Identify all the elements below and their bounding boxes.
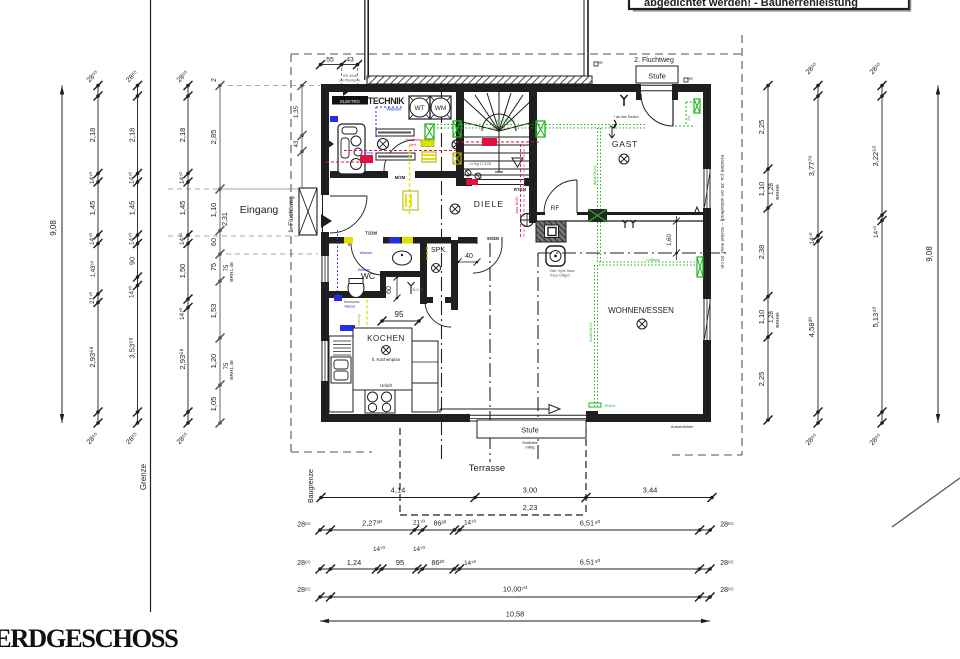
svg-text:86²⁰: 86²⁰ — [434, 520, 447, 528]
svg-text:Abluft DN100: Abluft DN100 — [495, 119, 515, 123]
Stufe box top — [636, 66, 678, 83]
socket at Fluchtweg door — [621, 95, 628, 106]
svg-text:9,08: 9,08 — [925, 246, 934, 262]
svg-text:1,10: 1,10 — [209, 203, 218, 218]
red distribution line — [344, 150, 456, 152]
GAST door leaf — [544, 180, 577, 213]
svg-text:28⁶⁵: 28⁶⁵ — [297, 522, 311, 529]
svg-text:1,53: 1,53 — [209, 304, 218, 319]
svg-text:komp.: komp. — [364, 151, 374, 155]
WC door leaf — [351, 243, 383, 275]
washer WT — [409, 96, 430, 119]
TECHNIK door leaf — [384, 140, 415, 171]
bottom chain 10,58 — [320, 620, 710, 622]
olive drop SPK — [426, 247, 428, 262]
entrance door leaf — [330, 196, 367, 233]
green end mark — [589, 403, 601, 407]
svg-text:3,77⁷⁰: 3,77⁷⁰ — [807, 156, 816, 177]
svg-text:90/2M: 90/2M — [487, 236, 499, 241]
terrace dashed outline — [399, 428, 401, 515]
svg-text:Klst.: Klst. — [599, 419, 606, 423]
bottom chain 4 — [320, 596, 710, 598]
svg-text:2,93⁶⁸: 2,93⁶⁸ — [178, 348, 187, 369]
svg-text:Kiesbett (ca. 30 cm umlaufend): Kiesbett (ca. 30 cm umlaufend) – Sockel … — [719, 155, 725, 269]
svg-text:28⁶⁵: 28⁶⁵ — [720, 522, 734, 529]
left chain 9,08 — [61, 86, 63, 424]
guide dashes from chain 5 — [226, 188, 299, 190]
dim 1,60 chimney — [676, 216, 678, 260]
svg-text:4,14: 4,14 — [391, 486, 406, 495]
svg-text:14⁷⁰: 14⁷⁰ — [89, 172, 96, 184]
bottom chain 2 — [320, 529, 710, 531]
svg-text:1,43⁶⁰: 1,43⁶⁰ — [90, 260, 97, 277]
svg-text:95: 95 — [396, 558, 404, 567]
exterior wall right — [703, 84, 711, 169]
double socket symbol — [622, 220, 636, 228]
svg-text:28⁶⁵: 28⁶⁵ — [720, 560, 734, 567]
svg-text:Hauswass.: Hauswass. — [344, 300, 361, 304]
svg-text:Abw. DN50: Abw. DN50 — [515, 196, 519, 213]
svg-text:BRH95: BRH95 — [775, 312, 781, 328]
section line horizontal — [538, 252, 728, 254]
Baugrenze dashed setback rectangle — [290, 54, 292, 452]
svg-text:WM: WM — [435, 105, 447, 112]
svg-text:1,35: 1,35 — [293, 105, 300, 118]
svg-text:KOCHEN: KOCHEN — [367, 334, 405, 343]
wall stair/GAST — [529, 92, 537, 223]
svg-text:2,38: 2,38 — [757, 245, 766, 260]
svg-text:75: 75 — [209, 263, 218, 271]
blue sill kitchen door — [340, 325, 355, 331]
svg-text:60: 60 — [386, 286, 393, 294]
staircase treads — [463, 136, 534, 138]
svg-text:1,45: 1,45 — [178, 201, 187, 216]
svg-text:WOHNEN/ESSEN: WOHNEN/ESSEN — [608, 306, 674, 315]
olive sleeve stair wall — [453, 153, 461, 164]
window WC left — [321, 256, 323, 282]
property boundary line Grenze — [150, 0, 152, 612]
svg-text:14⁷⁰: 14⁷⁰ — [873, 226, 880, 238]
svg-text:14⁷⁰: 14⁷⁰ — [809, 232, 816, 244]
svg-text:1,28: 1,28 — [769, 183, 775, 195]
heat pump unit — [338, 124, 365, 174]
room label TECHNIK — [332, 96, 368, 105]
svg-text:ELEKTRO: ELEKTRO — [340, 99, 360, 104]
blue water line — [375, 107, 377, 138]
svg-text:43: 43 — [293, 140, 300, 147]
svg-text:6,51⁴⁰: 6,51⁴⁰ — [580, 558, 601, 567]
blue mark kitchen top — [389, 237, 400, 244]
wall WC bottom — [321, 291, 386, 298]
svg-text:Baugrenze: Baugrenze — [308, 469, 315, 503]
green vent sleeve TECHNIK — [425, 124, 434, 139]
svg-text:3,00: 3,00 — [523, 486, 538, 495]
section line vertical A — [441, 85, 443, 462]
svg-text:3,44: 3,44 — [643, 486, 658, 495]
svg-text:BRH1,48: BRH1,48 — [229, 360, 235, 380]
svg-text:2. Fluchtweg: 2. Fluchtweg — [634, 57, 674, 64]
terrace sliding door sill — [470, 414, 586, 416]
carport roof hatched edge — [367, 76, 592, 84]
svg-text:60: 60 — [209, 238, 218, 246]
svg-text:Lüftung: Lüftung — [357, 314, 361, 325]
svg-text:5,13⁴⁰: 5,13⁴⁰ — [871, 306, 880, 327]
green vent sleeve stair right wall — [536, 121, 545, 137]
svg-text:14⁷⁰: 14⁷⁰ — [464, 560, 476, 567]
svg-text:* an der Decke: * an der Decke — [613, 115, 638, 119]
svg-text:21⁷⁰: 21⁷⁰ — [413, 520, 425, 527]
svg-text:B=2,26: B=2,26 — [413, 288, 424, 292]
staircase winders — [463, 98, 499, 131]
svg-text:Vert.: Vert. — [409, 143, 417, 147]
section line vertical B — [489, 243, 491, 462]
svg-text:GAST: GAST — [612, 139, 638, 149]
dim 95 passage — [382, 320, 419, 322]
Stufe box terrace — [477, 420, 586, 438]
wash basin — [393, 251, 412, 265]
guide dashes entrance — [168, 188, 299, 190]
opening 2. Fluchtweg door — [640, 84, 673, 86]
svg-text:1,45: 1,45 — [88, 201, 97, 216]
svg-text:Unluft: Unluft — [380, 383, 393, 388]
svg-text:Köyp Cöllgen: Köyp Cöllgen — [550, 274, 570, 278]
svg-text:Stufe: Stufe — [521, 426, 539, 435]
note box top right — [629, 0, 909, 9]
wall corridor bottom right stub — [458, 237, 477, 244]
small dimension 55/43 over entrance canopy — [321, 64, 358, 66]
svg-text:Wasser: Wasser — [344, 305, 356, 309]
svg-text:21⁷⁰: 21⁷⁰ — [89, 292, 96, 304]
svg-text:DIELE: DIELE — [474, 199, 505, 209]
svg-text:1,10: 1,10 — [757, 182, 766, 197]
window kitchen left — [321, 341, 323, 381]
toilet — [348, 279, 364, 298]
wall post marker left entrance — [321, 214, 332, 228]
svg-text:mittig: mittig — [525, 446, 534, 450]
svg-text:28⁶⁵: 28⁶⁵ — [297, 560, 311, 567]
svg-text:T1/2M: T1/2M — [365, 231, 377, 236]
entrance door opening — [322, 195, 324, 232]
green vent drop WOHNEN — [594, 265, 596, 406]
svg-text:M/2M: M/2M — [395, 175, 406, 180]
WC niche wall — [386, 271, 420, 277]
svg-text:1,20: 1,20 — [209, 354, 218, 369]
window WOHNEN right — [703, 299, 705, 340]
svg-text:1,24: 1,24 — [347, 558, 361, 567]
svg-text:2,25: 2,25 — [757, 372, 766, 387]
svg-text:14⁷⁰: 14⁷⁰ — [89, 233, 96, 245]
svg-text:3,53⁶⁸: 3,53⁶⁸ — [128, 337, 137, 358]
svg-text:1,45: 1,45 — [128, 201, 137, 216]
svg-text:14⁷⁰: 14⁷⁰ — [373, 546, 385, 553]
svg-text:43: 43 — [346, 57, 354, 64]
corner gusset top left — [343, 85, 358, 96]
svg-text:BRH1,48: BRH1,48 — [229, 262, 235, 282]
chimney RF — [536, 221, 566, 242]
svg-text:Terrasse: Terrasse — [469, 463, 505, 474]
label box Kondensator — [376, 153, 415, 160]
blue water WC — [337, 230, 339, 298]
svg-text:55: 55 — [326, 57, 334, 64]
door jamb block — [586, 411, 598, 415]
svg-text:6,51⁴⁰: 6,51⁴⁰ — [580, 519, 601, 528]
svg-text:Lüftung: Lüftung — [646, 257, 659, 262]
svg-text:2,18: 2,18 — [88, 128, 97, 143]
svg-text:RF: RF — [551, 205, 560, 212]
svg-text:Oller Oppe Haus: Oller Oppe Haus — [549, 269, 575, 273]
exterior wall left — [321, 84, 329, 195]
svg-text:Aussenfühler: Aussenfühler — [671, 425, 694, 429]
green vent below wall — [597, 222, 599, 263]
window marker triangle — [694, 207, 700, 214]
green marks top right corner — [694, 99, 700, 113]
wall TECHNIK/stair — [456, 92, 464, 186]
washer WM — [430, 96, 451, 119]
svg-text:14 Stg 17,5/28: 14 Stg 17,5/28 — [469, 162, 491, 166]
svg-text:2,25: 2,25 — [757, 120, 766, 135]
svg-text:Wasser: Wasser — [358, 268, 371, 272]
svg-text:14⁷⁰: 14⁷⁰ — [129, 233, 136, 245]
section line vertical C — [537, 253, 539, 462]
green vent line — [430, 124, 645, 126]
dark sleeve stair wall — [452, 140, 461, 149]
yellow marks passage — [366, 300, 368, 333]
svg-text:40: 40 — [465, 253, 473, 260]
left chain 2 — [97, 86, 99, 424]
right chain A window heights — [767, 86, 769, 421]
svg-text:Wasser: Wasser — [360, 251, 373, 255]
duct sleeve in GAST wall — [588, 209, 607, 222]
right chain C — [881, 86, 883, 424]
svg-text:2,23: 2,23 — [523, 503, 538, 512]
svg-text:1,05: 1,05 — [209, 397, 218, 412]
exterior wall bottom — [321, 414, 470, 422]
svg-text:1,60: 1,60 — [667, 234, 673, 246]
wall corridor bottom / WC top — [321, 237, 349, 244]
wall SPK left — [420, 240, 427, 304]
svg-text:14⁷⁰: 14⁷⁰ — [129, 286, 136, 298]
svg-text:RD 40x8: RD 40x8 — [343, 74, 357, 78]
red box — [360, 155, 373, 163]
svg-text:86²⁰: 86²⁰ — [432, 559, 445, 567]
green vent drop GAST — [597, 128, 599, 209]
SPK door leaf — [425, 301, 451, 327]
svg-text:1,50: 1,50 — [178, 264, 187, 279]
svg-text:2: 2 — [211, 78, 218, 82]
svg-text:14⁷⁰: 14⁷⁰ — [179, 308, 186, 320]
svg-text:3,22⁵⁰: 3,22⁵⁰ — [871, 146, 880, 167]
yellow boxes — [421, 140, 434, 147]
kitchen cabinets right — [412, 341, 438, 383]
svg-text:TECHNIK: TECHNIK — [368, 96, 405, 106]
svg-text:UK Pfosten o.: UK Pfosten o. — [339, 79, 361, 83]
svg-text:10,58: 10,58 — [506, 610, 525, 619]
left chain 3 — [137, 86, 139, 424]
svg-text:1,10: 1,10 — [757, 310, 766, 325]
symbol electrical — [378, 139, 389, 150]
svg-text:Zuluft DN100: Zuluft DN100 — [589, 322, 593, 342]
window GAST right — [703, 169, 705, 208]
staircase walk line — [498, 92, 500, 172]
dim 60 niche — [396, 277, 398, 298]
svg-text:28⁶⁵: 28⁶⁵ — [720, 587, 734, 594]
stove — [365, 390, 395, 413]
wall stair door stubs — [456, 178, 472, 186]
red riser stair — [456, 141, 540, 143]
svg-text:4,58³⁰: 4,58³⁰ — [807, 317, 816, 337]
svg-text:2,18: 2,18 — [178, 128, 187, 143]
terrace door arrow — [440, 408, 549, 410]
carport post line right — [583, 0, 585, 76]
svg-text:SPK.: SPK. — [431, 247, 447, 254]
svg-text:DN100: DN100 — [605, 404, 616, 408]
svg-text:RT/1N: RT/1N — [514, 187, 526, 192]
svg-text:9,08: 9,08 — [49, 220, 58, 236]
svg-text:14⁷⁰: 14⁷⁰ — [179, 233, 186, 245]
exterior wall top — [321, 84, 640, 92]
svg-text:2,18: 2,18 — [128, 128, 137, 143]
kitchen island — [353, 328, 412, 390]
sockets below stair — [465, 170, 471, 176]
wall SPK right — [451, 240, 458, 310]
right chain B — [817, 86, 819, 424]
svg-text:14⁷⁰: 14⁷⁰ — [413, 546, 425, 553]
svg-text:2,31: 2,31 — [222, 212, 229, 226]
svg-text:BRH95: BRH95 — [775, 184, 781, 200]
carport post line left — [364, 0, 366, 80]
svg-text:lt. Küchenplan: lt. Küchenplan — [372, 357, 401, 362]
svg-text:2,93⁶⁸: 2,93⁶⁸ — [88, 346, 97, 367]
svg-text:Grenze: Grenze — [139, 463, 148, 490]
right chain 9,08 — [937, 86, 939, 424]
bottom chain terrace — [321, 497, 712, 499]
svg-text:WT: WT — [414, 105, 424, 112]
svg-text:95: 95 — [395, 310, 404, 319]
wall post marker left upper — [321, 135, 334, 153]
kitchen sink — [331, 357, 351, 383]
svg-text:Eingang: Eingang — [240, 204, 279, 216]
svg-text:Abluft DN100: Abluft DN100 — [593, 165, 597, 185]
kitchen counter left — [329, 336, 353, 412]
entrance porch steps — [299, 188, 317, 235]
small chain 1,35/43 — [301, 86, 303, 152]
green vent sleeve stair wall — [453, 121, 461, 137]
svg-text:ERDGESCHOSS: ERDGESCHOSS — [0, 623, 178, 653]
svg-text:10,00⁷⁰: 10,00⁷⁰ — [503, 585, 527, 594]
wall GAST bottom — [537, 212, 545, 215]
wall TECHNIK bottom — [330, 171, 388, 178]
bottom chain 3 — [320, 568, 710, 570]
symbol herd — [408, 282, 415, 294]
left chain 5 window heights — [219, 86, 221, 424]
svg-text:Wasser: Wasser — [386, 107, 402, 112]
diagonal site line bottom right — [892, 478, 960, 527]
yellow mark kitchen top — [402, 237, 413, 244]
corridor to kitchen door — [473, 244, 502, 273]
svg-text:14⁷⁰: 14⁷⁰ — [179, 172, 186, 184]
wall SPK bottom stubs — [420, 297, 433, 303]
label box Speicher — [376, 129, 414, 136]
svg-text:14⁷⁰: 14⁷⁰ — [464, 520, 476, 527]
svg-text:2,27³⁰: 2,27³⁰ — [362, 519, 382, 528]
svg-text:abgedichtet werden! - Bauherre: abgedichtet werden! - Bauherrenleistung — [644, 0, 858, 9]
red drop DIELE — [520, 144, 522, 238]
svg-text:1,28: 1,28 — [769, 311, 775, 323]
svg-text:Rollleiste: Rollleiste — [522, 441, 537, 445]
staircase landing arc — [482, 114, 516, 131]
green sleeve right wall — [697, 257, 703, 277]
floor drain symbol — [521, 214, 534, 227]
svg-text:90: 90 — [128, 257, 137, 265]
svg-text:Stufe: Stufe — [648, 72, 666, 81]
svg-text:2,85: 2,85 — [209, 130, 218, 145]
svg-text:Heizkreis: Heizkreis — [405, 138, 421, 142]
svg-text:Zul.: Zul. — [687, 115, 691, 121]
svg-text:1. Fluchtweg: 1. Fluchtweg — [288, 196, 295, 233]
Fluchtweg door leaf — [641, 94, 673, 126]
yellow drop DIELE — [409, 145, 411, 215]
red marker in stair door — [466, 179, 478, 185]
wood stove — [546, 246, 565, 266]
left chain 4 — [187, 86, 189, 424]
svg-text:28⁶⁵: 28⁶⁵ — [297, 587, 311, 594]
svg-text:14⁷⁰: 14⁷⁰ — [129, 172, 136, 184]
